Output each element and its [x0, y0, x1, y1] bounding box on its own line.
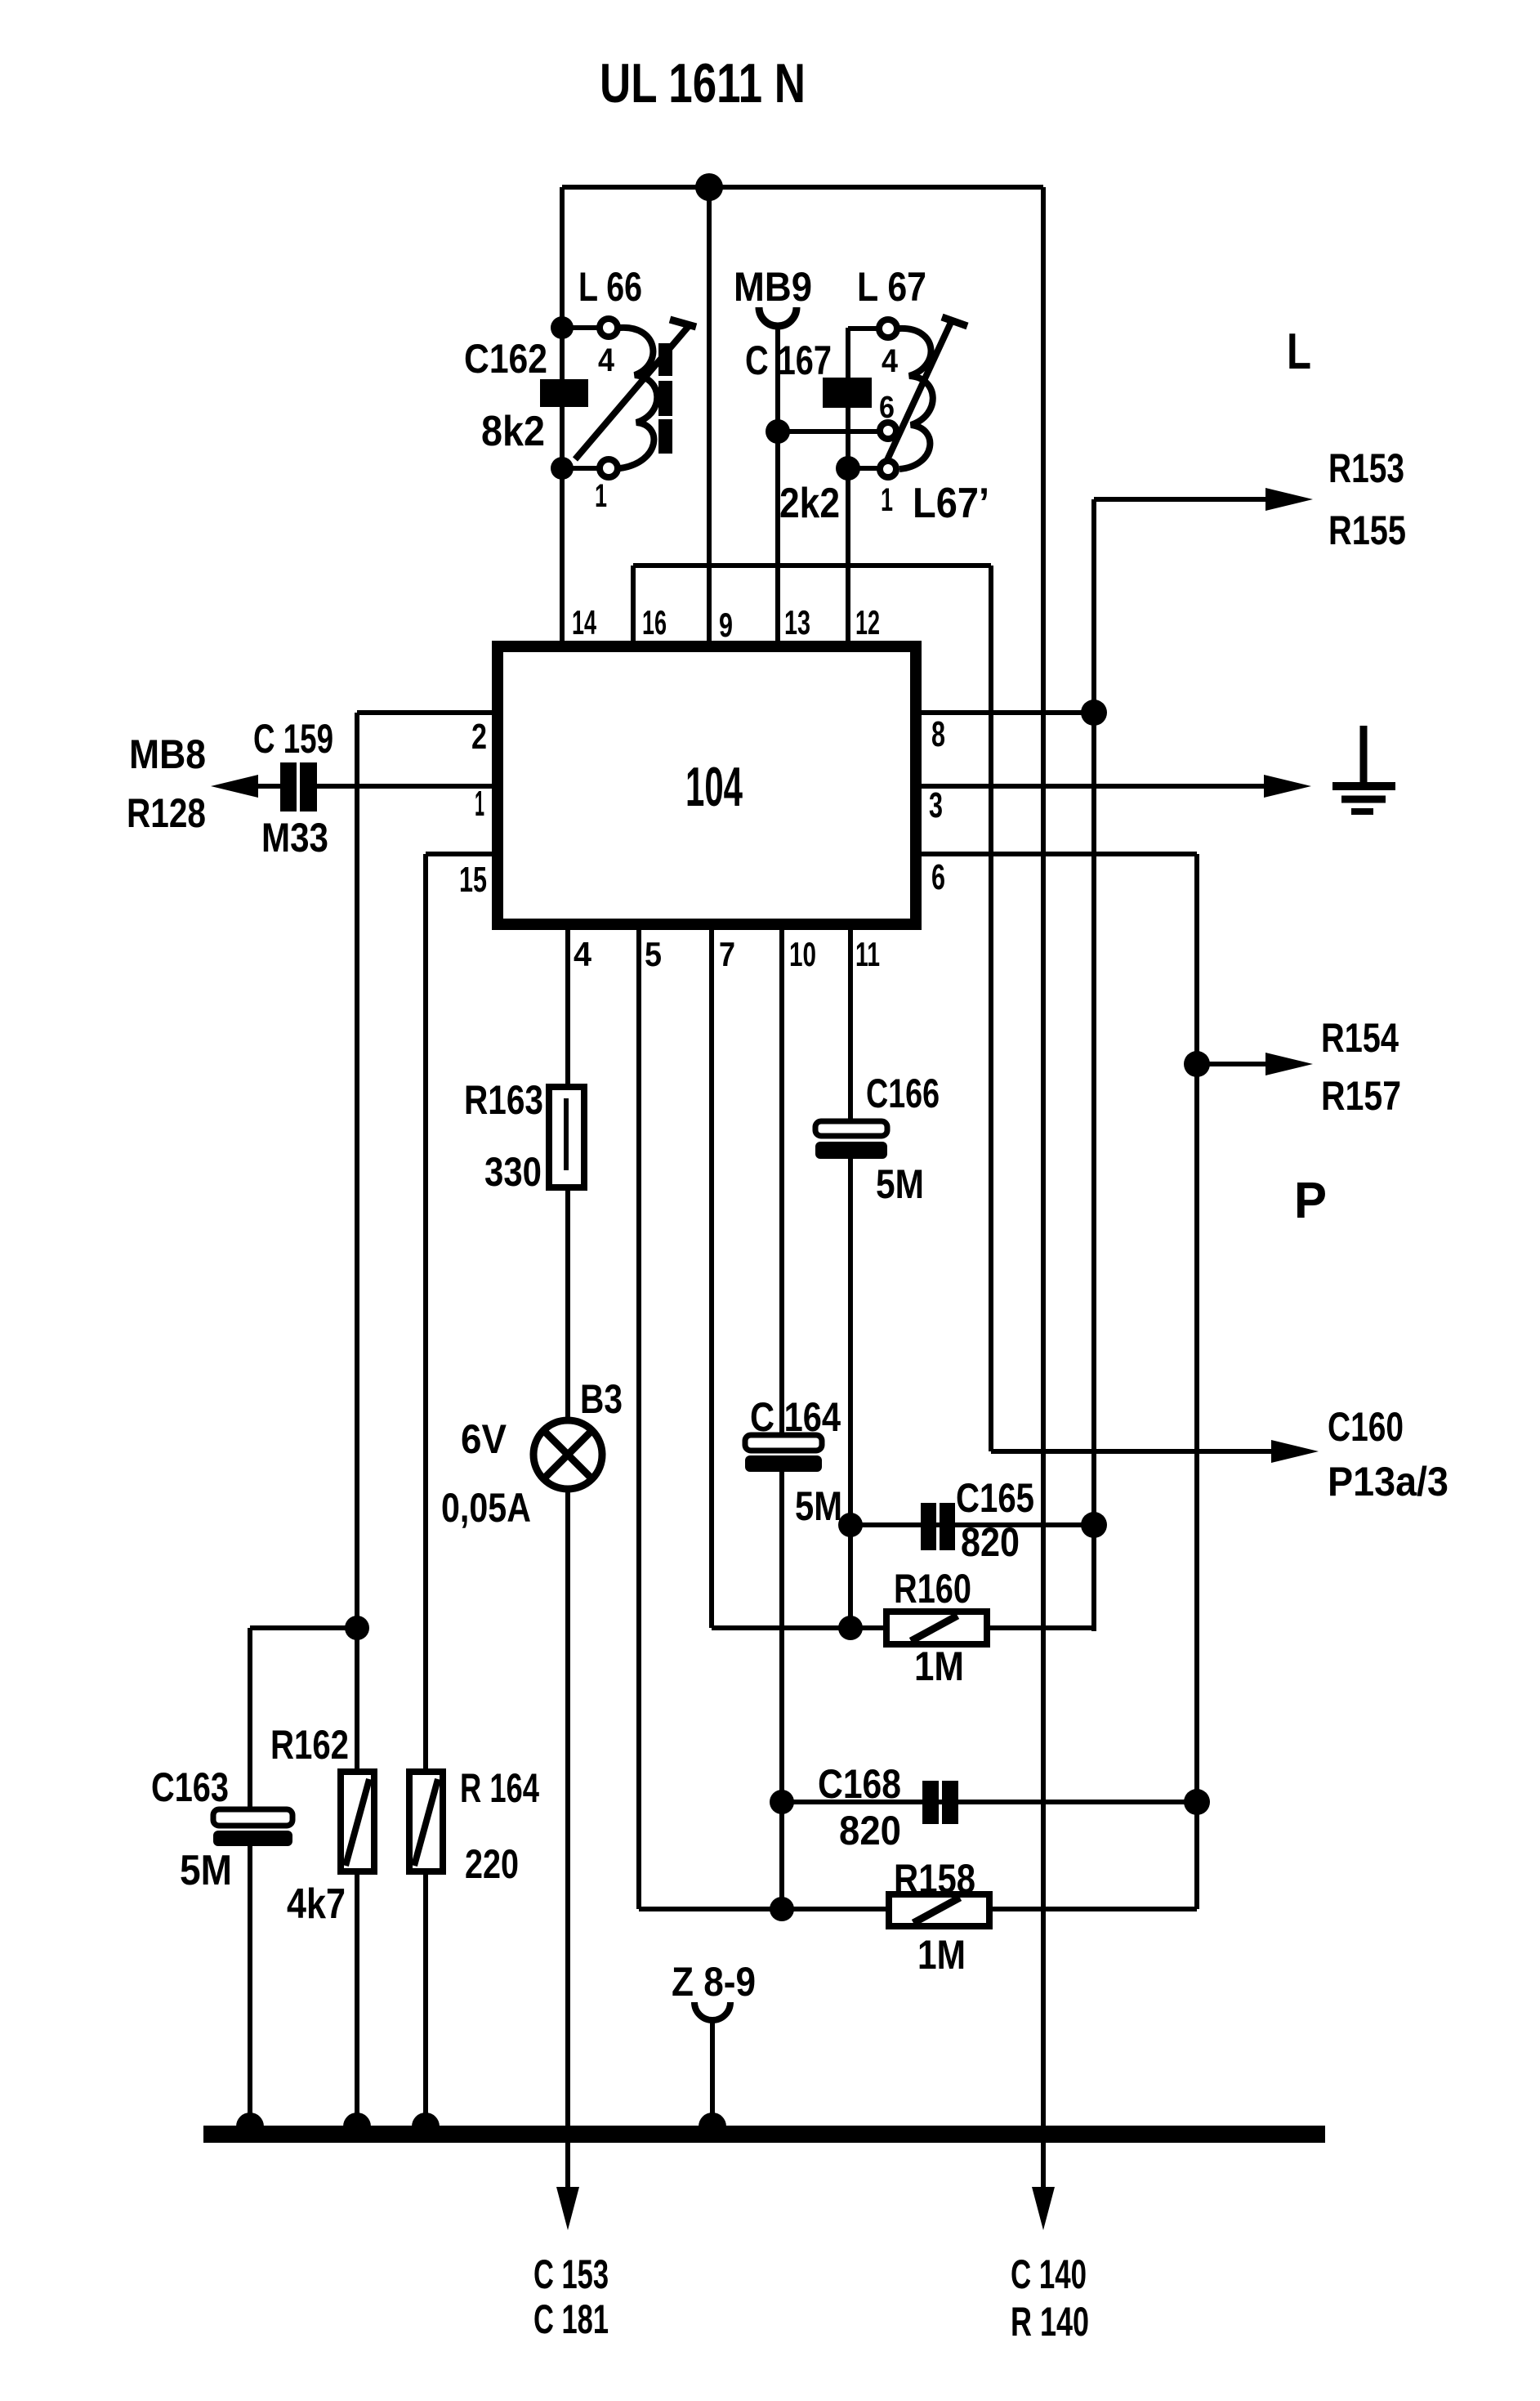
wire pin6 ext column [1194, 854, 1199, 1909]
wire pin9 column [707, 187, 712, 644]
svg-text:C 167: C 167 [745, 338, 832, 383]
svg-text:2k2: 2k2 [779, 480, 840, 527]
svg-text:Z 8-9: Z 8-9 [672, 1959, 756, 2005]
wire L66 top link [562, 325, 599, 330]
svg-text:C165: C165 [956, 1475, 1034, 1521]
svg-text:R153: R153 [1328, 445, 1404, 491]
wire pin15 / R164 column [423, 854, 428, 2135]
capacitor C168 plates [922, 1781, 958, 1824]
inductor L67 [879, 317, 967, 477]
svg-text:16: 16 [642, 603, 667, 642]
wire C160 row [991, 1449, 1274, 1454]
svg-text:L67’: L67’ [913, 480, 989, 527]
wire pin16 ext column [989, 566, 993, 1451]
arrow MB8/R128 [211, 775, 258, 798]
svg-text:1: 1 [881, 482, 893, 518]
wire pin5 column [636, 924, 641, 1909]
svg-text:L 66: L 66 [578, 264, 642, 310]
wire R160 row [712, 1625, 1094, 1630]
svg-text:4: 4 [882, 343, 899, 379]
svg-text:R158: R158 [894, 1856, 975, 1902]
svg-text:L 67: L 67 [857, 264, 926, 310]
wire pin6 row [916, 852, 1197, 856]
svg-text:1: 1 [475, 784, 484, 824]
svg-text:C 181: C 181 [533, 2296, 609, 2342]
svg-text:R160: R160 [894, 1566, 971, 1612]
svg-text:B3: B3 [580, 1376, 623, 1422]
connector MB9 symbol [759, 307, 797, 326]
svg-text:8: 8 [931, 714, 945, 754]
svg-text:0,05A: 0,05A [441, 1485, 531, 1531]
node bus R162 [343, 2113, 371, 2126]
wire MB9 to L67 pin6 [778, 429, 881, 434]
svg-text:R157: R157 [1321, 1073, 1401, 1119]
wire pin10 column upper [779, 924, 784, 1437]
ground bus bar [203, 2126, 1325, 2143]
wire C165 row [850, 1522, 1094, 1527]
wire C163 column lower [248, 1844, 252, 2135]
svg-text:C 140: C 140 [1011, 2251, 1087, 2297]
wire pin1 row left of C159 [245, 784, 282, 789]
svg-text:C162: C162 [464, 336, 547, 382]
svg-text:MB9: MB9 [734, 264, 812, 310]
node C165 left [838, 1513, 863, 1537]
svg-text:C 159: C 159 [253, 716, 333, 762]
wire C163 link row [250, 1625, 357, 1630]
svg-text:820: 820 [961, 1519, 1020, 1565]
svg-text:10: 10 [789, 935, 816, 973]
node top junction [695, 173, 723, 201]
capacitor C164 plates [745, 1435, 822, 1472]
svg-text:5: 5 [645, 935, 662, 973]
wire C168 row [782, 1800, 1197, 1804]
svg-text:C168: C168 [818, 1761, 901, 1807]
node bus C163 [236, 2113, 264, 2126]
lamp B3 [533, 1420, 602, 1489]
wire pin11 column lower [848, 1157, 853, 1628]
svg-text:11: 11 [855, 935, 880, 973]
connector Z8-9 symbol [694, 2002, 730, 2020]
capacitor C162 body [540, 379, 588, 407]
svg-text:13: 13 [784, 603, 810, 642]
node L66 top [551, 316, 574, 339]
svg-text:P13a/3: P13a/3 [1328, 1459, 1448, 1505]
resistor R163 [549, 1087, 584, 1187]
wire right outer column to C140 [1041, 187, 1046, 2192]
node C165 right [1081, 1512, 1107, 1538]
svg-text:820: 820 [839, 1808, 901, 1853]
wire R153 row [1094, 497, 1269, 502]
svg-text:9: 9 [719, 606, 733, 644]
svg-text:1M: 1M [917, 1932, 966, 1978]
node MB9/L67 [766, 419, 790, 444]
svg-text:C166: C166 [866, 1071, 940, 1116]
IC U104 box [498, 646, 916, 924]
arrow C153/C181 [556, 2187, 579, 2230]
capacitor C167 body [823, 378, 872, 408]
node C168 left [770, 1790, 794, 1814]
svg-text:P: P [1294, 1173, 1327, 1229]
wire MB9 / pin13 column [775, 325, 780, 644]
arrow to ground [1264, 775, 1311, 798]
svg-text:4: 4 [598, 342, 615, 378]
node L66 bottom [551, 457, 574, 480]
svg-text:12: 12 [855, 603, 880, 642]
node R158 tap [770, 1897, 794, 1921]
node pin8 ext [1081, 700, 1107, 726]
svg-text:8k2: 8k2 [481, 408, 545, 455]
svg-text:1M: 1M [914, 1643, 964, 1689]
svg-text:2: 2 [471, 717, 487, 757]
svg-text:R163: R163 [464, 1077, 543, 1123]
svg-text:4: 4 [574, 935, 592, 973]
wire pin16 row [633, 563, 991, 568]
svg-text:R162: R162 [270, 1722, 349, 1768]
arrow R154/R157 [1265, 1053, 1313, 1075]
svg-text:5M: 5M [876, 1161, 924, 1207]
wire C167 / pin12 column [846, 328, 850, 644]
capacitor C165 plates [921, 1503, 955, 1550]
wire pin3 row [916, 784, 1267, 789]
node R154 tap [1184, 1051, 1210, 1077]
wire pin4 / R163 / B3 column [565, 924, 570, 2192]
svg-text:7: 7 [719, 935, 735, 973]
wire L67 bottom link [848, 466, 880, 471]
wire pin2 row [357, 710, 500, 715]
node R160 left [838, 1616, 863, 1640]
resistor R164 [409, 1772, 443, 1871]
svg-text:104: 104 [685, 756, 743, 818]
capacitor C159 plates [280, 762, 317, 812]
wire L66 bottom link [562, 466, 599, 471]
svg-text:4k7: 4k7 [287, 1880, 346, 1928]
node C167/L67 [836, 456, 860, 481]
svg-text:R155: R155 [1328, 507, 1406, 553]
node C163 link [345, 1616, 369, 1640]
svg-text:UL 1611 N: UL 1611 N [600, 52, 806, 114]
svg-text:C 153: C 153 [533, 2251, 609, 2297]
svg-text:14: 14 [572, 603, 596, 642]
wire R154 row [1197, 1062, 1269, 1066]
svg-text:6V: 6V [461, 1416, 507, 1462]
svg-text:6: 6 [879, 391, 895, 425]
svg-text:5M: 5M [795, 1483, 842, 1529]
svg-text:R128: R128 [127, 790, 206, 836]
resistor R158 [889, 1894, 989, 1926]
arrow C160/P13a [1271, 1440, 1319, 1463]
wire pin14 column (C162 / L66) [560, 187, 565, 644]
arrow C140/R140 [1032, 2187, 1055, 2230]
wire C163 column upper [248, 1628, 252, 1811]
node C168 right [1184, 1789, 1210, 1815]
svg-text:R154: R154 [1321, 1015, 1399, 1061]
wire pin15 row [426, 852, 500, 856]
wire pin2 / R162 column [355, 713, 359, 2135]
svg-text:R 164: R 164 [460, 1765, 539, 1811]
svg-text:1: 1 [595, 478, 607, 514]
wire pin10 column lower [779, 1470, 784, 1909]
svg-text:5M: 5M [180, 1847, 232, 1894]
wire pin11 column upper [848, 924, 853, 1123]
wire pin8 ext column [1091, 499, 1096, 1631]
arrow R153/R155 [1265, 488, 1313, 511]
svg-text:MB8: MB8 [129, 731, 206, 777]
node bus Z8-9 [699, 2113, 726, 2126]
wire pin16 column [631, 566, 636, 644]
svg-text:6: 6 [931, 857, 945, 897]
svg-text:M33: M33 [261, 815, 328, 861]
svg-text:220: 220 [465, 1841, 519, 1887]
ground symbol [1332, 726, 1395, 812]
svg-text:R 140: R 140 [1011, 2299, 1089, 2345]
wire R158 row [639, 1907, 1197, 1911]
wire pin1 row right of C159 [316, 784, 500, 789]
wire L67 top link [848, 326, 878, 331]
svg-text:3: 3 [929, 785, 943, 825]
resistor R162 [341, 1772, 374, 1871]
svg-text:330: 330 [484, 1149, 542, 1195]
node bus R164 [412, 2113, 440, 2126]
inductor L66 [575, 319, 696, 477]
wire Z8-9 stem [710, 2019, 715, 2135]
svg-text:L: L [1287, 324, 1311, 380]
resistor R160 [886, 1612, 987, 1644]
svg-text:C163: C163 [151, 1764, 229, 1810]
capacitor C163 plates [213, 1809, 292, 1846]
svg-text:C160: C160 [1328, 1404, 1404, 1450]
wire top bus [562, 185, 1043, 190]
svg-text:C 164: C 164 [750, 1394, 841, 1440]
wire pin8 row [916, 710, 1094, 715]
svg-text:15: 15 [459, 860, 487, 900]
capacitor C166 plates [815, 1121, 887, 1159]
wire pin7 column [709, 924, 714, 1628]
